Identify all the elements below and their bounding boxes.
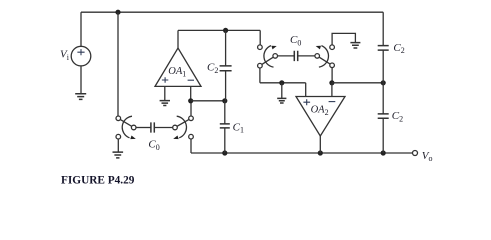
node OA1 minus	[188, 98, 193, 103]
switch S4 pole	[315, 54, 320, 59]
svg-text:FIGURE P4.29: FIGURE P4.29	[61, 175, 135, 187]
node rail C1	[222, 150, 227, 155]
wire right branch top	[382, 12, 384, 45]
terminal Vo	[413, 151, 418, 156]
svg-text:C0: C0	[148, 138, 159, 151]
switch S3 contact top	[258, 45, 263, 50]
wire Vi bottom	[80, 66, 82, 94]
switch S4 blade	[317, 56, 332, 65]
switch S1 arrow	[130, 136, 136, 140]
capacitor C0 upper	[294, 51, 297, 61]
wire C0 to S2 pole	[154, 127, 172, 129]
op-amp OA1	[155, 48, 201, 86]
wire drop to S3 contact	[259, 30, 261, 45]
switch S1 pole	[131, 125, 136, 130]
wire minus node to C node	[191, 100, 225, 102]
switch S3 blade	[260, 56, 275, 66]
node C2/C1	[222, 98, 227, 103]
svg-text:Vi: Vi	[60, 49, 70, 62]
switch S1 contact bottom	[116, 134, 121, 139]
node output/C2	[223, 28, 228, 33]
wire mid-right	[332, 82, 383, 84]
source Vi	[71, 46, 91, 66]
switch S1 contact top	[116, 116, 121, 121]
node top junction	[115, 10, 120, 15]
wire S4 top contact to ground	[332, 33, 355, 45]
wire S1 ground stub	[117, 139, 119, 152]
switch S2 arrow	[173, 136, 179, 140]
wire C0 to S4 pole	[298, 55, 315, 57]
switch S2 blade	[175, 118, 191, 127]
switch S1 arc	[122, 116, 132, 138]
wire OA1 minus stub	[190, 86, 192, 100]
switch S1 blade	[118, 118, 133, 127]
wire S4 bottom contact down	[331, 68, 333, 83]
wire OA2 plus stub	[305, 83, 307, 97]
node rail C2	[381, 150, 386, 155]
wire Vi top	[80, 12, 82, 46]
capacitor C2 feedback bottom wire	[225, 71, 227, 101]
wire OA1 output up	[177, 30, 179, 48]
capacitor C1	[220, 124, 230, 128]
switch S4 arc	[319, 46, 329, 68]
svg-text:OA1: OA1	[168, 66, 186, 78]
ground under OA1	[160, 101, 170, 106]
op-amp OA2	[296, 97, 345, 137]
switch S2 contact top	[189, 116, 194, 121]
node rail OA2	[318, 150, 323, 155]
wire S2 bottom contact down	[190, 139, 192, 153]
ground under S1	[113, 152, 124, 158]
switch S3 pole	[273, 54, 278, 59]
switch S4 contact top	[330, 45, 335, 50]
svg-text:OA2: OA2	[311, 105, 329, 117]
capacitor C0 lower	[151, 122, 154, 132]
switch S2 contact bottom	[189, 134, 194, 139]
wire input column	[117, 12, 119, 116]
switch S4 arrow	[316, 46, 321, 50]
switch S4 contact bottom	[330, 63, 335, 68]
wire right branch middle	[382, 50, 384, 114]
svg-text:C1: C1	[233, 121, 244, 134]
wire mid-left	[260, 82, 306, 84]
capacitor C2 feedback top wire	[225, 30, 227, 66]
wire right branch bottom	[382, 118, 384, 153]
node OA2 minus	[329, 80, 334, 85]
node right branch mid	[381, 80, 386, 85]
wire OA1 plus stub	[164, 86, 166, 100]
wire ground stub mid	[281, 83, 283, 98]
ground upper right	[350, 43, 360, 48]
wire S3 pole to C0	[278, 55, 295, 57]
capacitor C1 top wire	[224, 101, 226, 124]
capacitor C1 bottom wire	[224, 128, 226, 153]
switch S2 arc	[177, 116, 187, 138]
wire S1 pole to C0	[136, 127, 151, 129]
switch S3 contact bottom	[258, 63, 263, 68]
svg-text:Vo: Vo	[422, 150, 433, 163]
svg-text:C0: C0	[290, 34, 301, 47]
wire OA2 minus stub	[331, 83, 333, 97]
node mid ground	[279, 80, 284, 85]
ground mid	[277, 98, 286, 103]
wire top rail	[81, 11, 383, 13]
wire OA1 output rail	[178, 29, 260, 31]
capacitor C2 bottom right	[378, 114, 389, 118]
svg-text:C2: C2	[393, 42, 404, 55]
switch S2 pole	[173, 125, 178, 130]
switch S3 arrow	[271, 46, 276, 50]
switch S3 arc	[264, 46, 274, 68]
wire S3 bottom contact down	[259, 68, 261, 83]
capacitor C2 top right	[378, 46, 389, 51]
wire OA2 output down	[319, 136, 321, 153]
wire bottom rail	[191, 152, 413, 154]
capacitor C2 feedback	[220, 66, 232, 71]
wire S2 top contact up	[190, 101, 192, 116]
ground under Vi	[75, 94, 86, 100]
svg-text:C2: C2	[207, 62, 218, 75]
svg-text:C2: C2	[392, 110, 403, 123]
